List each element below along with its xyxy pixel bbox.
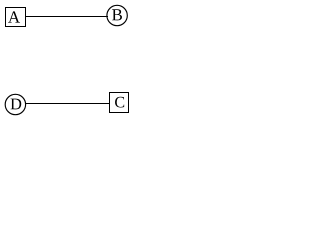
- node D (circle): [5, 94, 25, 114]
- label A: [8, 11, 20, 22]
- wire D-C: [25, 103, 110, 105]
- label D: [11, 99, 22, 110]
- node C (square box): [110, 93, 129, 113]
- node A (square box): [6, 8, 26, 27]
- wire A-B: [25, 16, 108, 18]
- label B: [112, 9, 122, 20]
- label C: [115, 97, 124, 108]
- node B (circle): [107, 5, 127, 25]
